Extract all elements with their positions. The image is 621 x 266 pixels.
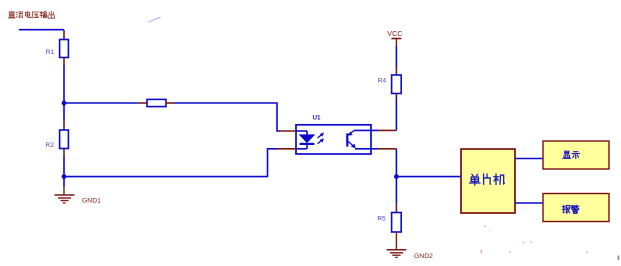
U1 LED emission arrows <box>318 134 322 138</box>
svg-text:R4: R4 <box>378 77 387 84</box>
wire MCU to alarm <box>515 202 543 204</box>
wire node A to R3 <box>64 102 139 104</box>
stray marks (watermark remnants) <box>481 226 620 261</box>
ground GND2 <box>395 232 397 250</box>
U1 pin 3 (emitter) <box>378 148 396 150</box>
wire U1 emitter to node C <box>395 149 397 177</box>
wire node C to R5 <box>395 177 397 204</box>
node C junction <box>394 174 399 179</box>
block 报警 (alarm) <box>543 194 609 222</box>
wire input <box>19 29 64 31</box>
svg-text:R5: R5 <box>377 215 386 222</box>
resistor R3 (series) <box>139 102 148 104</box>
svg-text:R1: R1 <box>46 49 55 56</box>
resistor R1 <box>63 30 65 40</box>
wire R3 to U1 anode <box>175 103 281 131</box>
svg-text:GND1: GND1 <box>82 197 101 204</box>
resistor R2 <box>63 120 65 131</box>
U1 pin 2 (cathode) <box>277 148 296 150</box>
wire node B down <box>63 177 65 187</box>
svg-text:R2: R2 <box>46 142 55 149</box>
U1 pin 4 (collector) <box>378 129 396 131</box>
stray mark <box>149 17 161 22</box>
svg-text:U1: U1 <box>313 114 322 121</box>
wire node B to U1 cathode <box>64 149 277 177</box>
resistor R5 <box>395 204 397 213</box>
wire MCU to display <box>515 158 543 160</box>
ground GND1 <box>63 187 65 195</box>
U1 phototransistor <box>346 133 348 146</box>
block 显示 (display) <box>543 141 609 169</box>
node A junction <box>62 101 67 106</box>
wire node A to R2 <box>63 103 65 120</box>
block U2 单片机 (MCU) <box>461 149 515 213</box>
svg-text:GND2: GND2 <box>414 253 433 260</box>
wire R4 to U1 collector <box>395 98 397 131</box>
U1 LED diode <box>296 130 307 132</box>
resistor R4 <box>395 67 397 75</box>
node B junction <box>62 174 67 179</box>
wire VCC to R4 <box>395 46 397 67</box>
wire R1 to node A <box>63 66 65 104</box>
wire node C to MCU <box>396 176 461 178</box>
net label 直流电压输出 (DC voltage output) <box>8 11 15 18</box>
U1 pin 1 (anode) <box>280 130 297 132</box>
svg-text:VCC: VCC <box>387 31 402 38</box>
optocoupler U1 <box>277 114 396 154</box>
wire R2 to node B <box>63 158 65 177</box>
